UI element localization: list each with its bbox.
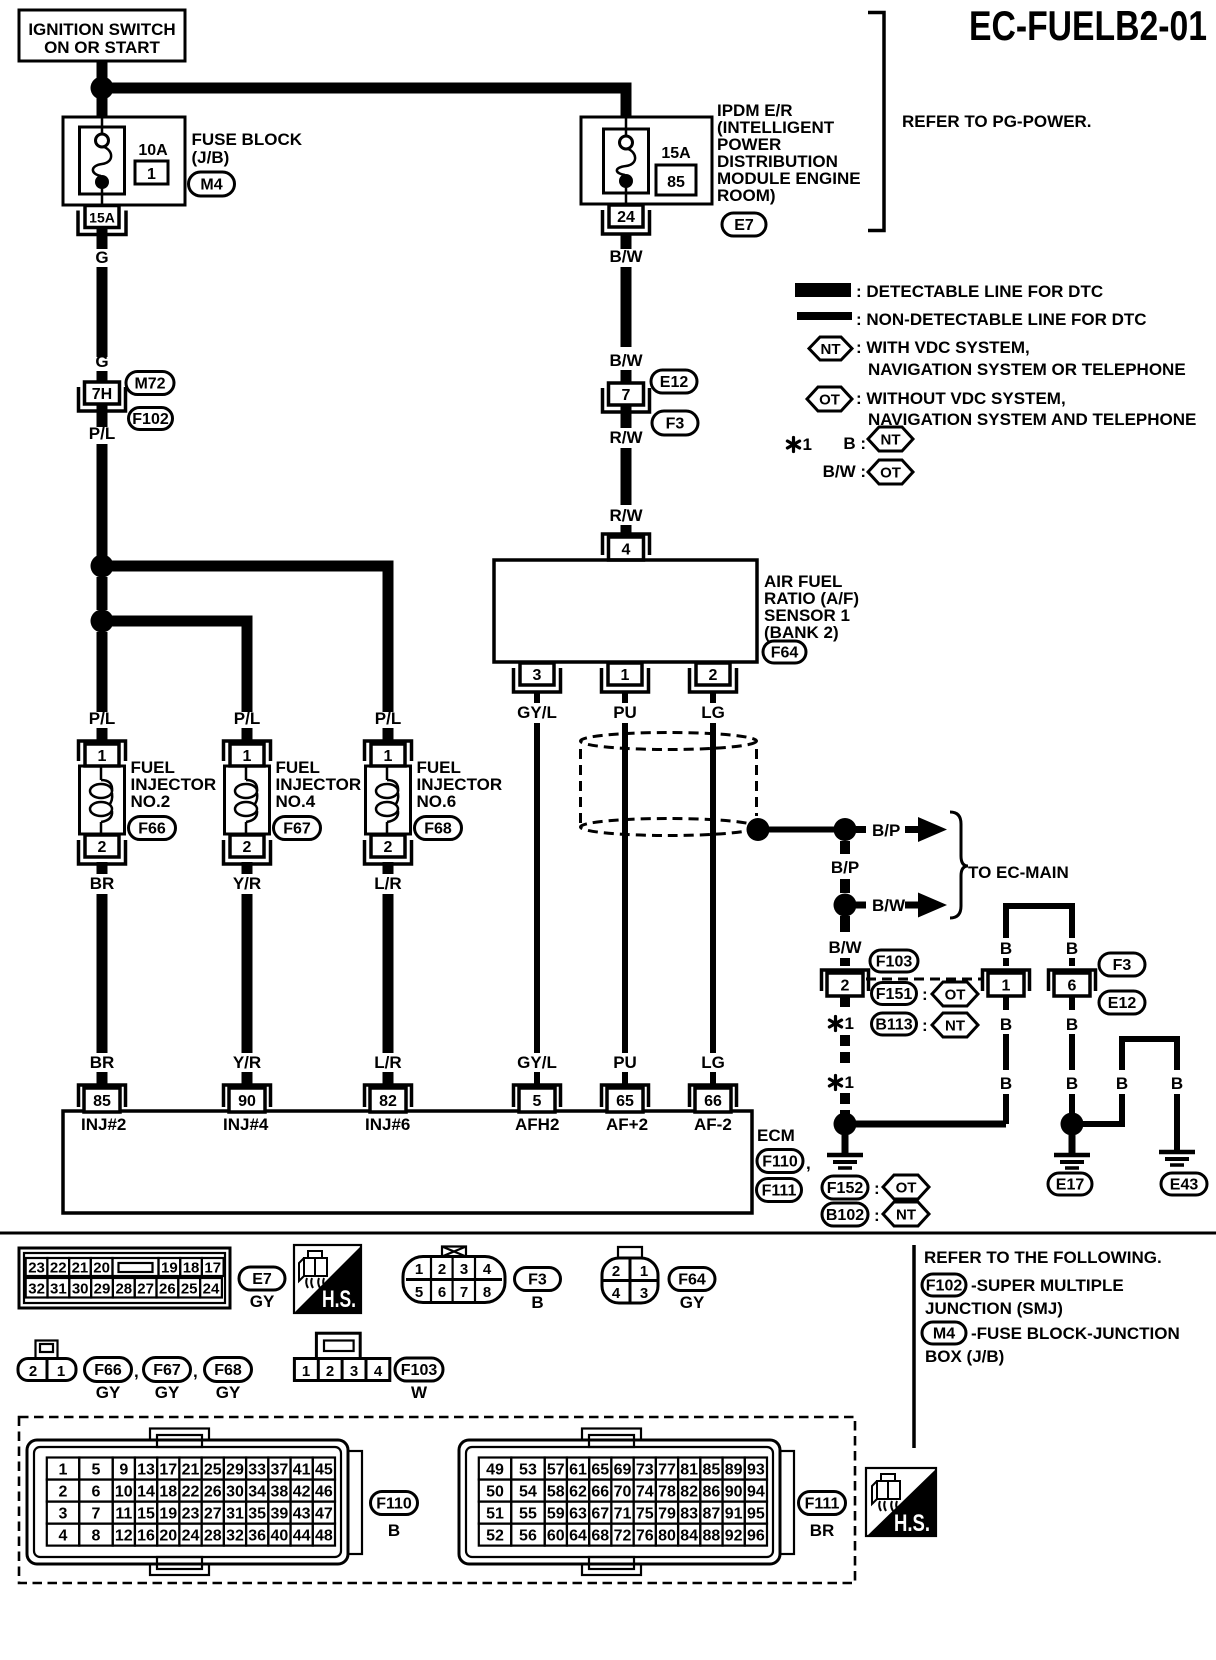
wire B/W below junction [840, 916, 850, 932]
svg-text:G: G [95, 248, 108, 267]
svg-text:2: 2 [438, 1261, 446, 1278]
wire B/P arrow stub [856, 826, 866, 833]
wire LG [710, 723, 716, 1053]
svg-text:3: 3 [350, 1363, 358, 1380]
svg-text:17: 17 [159, 1462, 177, 1479]
connector ref F110 [757, 1150, 803, 1173]
svg-text:43: 43 [293, 1506, 311, 1523]
svg-text::: : [874, 1179, 880, 1198]
svg-text:1: 1 [845, 1073, 854, 1092]
svg-text:15A: 15A [661, 145, 691, 162]
separator line [0, 1232, 1216, 1235]
svg-text:73: 73 [636, 1462, 654, 1479]
dashed link to terminal 1 [866, 978, 984, 981]
svg-text:BR: BR [90, 1053, 115, 1072]
svg-text:5: 5 [415, 1284, 423, 1301]
svg-text:11: 11 [115, 1506, 132, 1523]
connector ref F64 [763, 641, 806, 663]
svg-text:B: B [1171, 1074, 1183, 1093]
svg-text:INJ#2: INJ#2 [81, 1115, 126, 1134]
connector ref E43 [1161, 1173, 1207, 1195]
junction node B/W [834, 894, 857, 917]
svg-text:3: 3 [460, 1261, 468, 1278]
svg-text:65: 65 [616, 1093, 634, 1110]
svg-text:(BANK 2): (BANK 2) [764, 623, 839, 642]
svg-text:39: 39 [271, 1506, 289, 1523]
svg-text:86: 86 [703, 1484, 721, 1501]
svg-text:19: 19 [159, 1506, 177, 1523]
svg-text:REFER TO THE FOLLOWING.: REFER TO THE FOLLOWING. [924, 1248, 1162, 1267]
svg-text:GY/L: GY/L [517, 703, 557, 722]
wire horizontal to ECM ground node [845, 1121, 1006, 1128]
svg-text:25: 25 [204, 1462, 222, 1479]
svg-text::: : [874, 1206, 880, 1225]
injector NO.4 coil body [225, 766, 270, 834]
connector ref F102 note [922, 1274, 966, 1296]
svg-text:21: 21 [72, 1260, 89, 1277]
svg-text:,: , [806, 1154, 811, 1173]
svg-text:H.S.: H.S. [894, 1510, 930, 1537]
svg-text:ON OR START: ON OR START [44, 38, 160, 57]
svg-text:28: 28 [204, 1528, 222, 1545]
svg-text:1: 1 [147, 166, 156, 183]
svg-text:81: 81 [680, 1462, 698, 1479]
connector ref F110 label [371, 1492, 418, 1515]
svg-text:GY/L: GY/L [517, 1053, 557, 1072]
shield (shielded cable) around PU and LG [581, 733, 757, 750]
svg-text:E43: E43 [1170, 1177, 1199, 1194]
svg-text:5: 5 [91, 1462, 100, 1479]
svg-text:4: 4 [59, 1528, 68, 1545]
svg-text:1: 1 [640, 1263, 648, 1280]
svg-text:P/L: P/L [234, 709, 260, 728]
svg-text:6: 6 [1068, 978, 1077, 995]
ECM terminal 85 INJ#2 [79, 1085, 126, 1107]
ECM terminal 90 INJ#4 [224, 1085, 271, 1107]
svg-text:2: 2 [243, 839, 252, 856]
connector F103/F151/B113 terminal 1 [983, 970, 1030, 991]
svg-text:26: 26 [204, 1484, 222, 1501]
svg-text:9: 9 [119, 1462, 128, 1479]
svg-text:-SUPER MULTIPLE: -SUPER MULTIPLE [971, 1276, 1124, 1295]
ECM terminal 65 AF+2 [602, 1085, 649, 1107]
svg-text:18: 18 [159, 1484, 177, 1501]
svg-text:91: 91 [725, 1506, 743, 1523]
svg-text:1: 1 [621, 667, 630, 684]
svg-text:4: 4 [374, 1363, 383, 1380]
terminal 24 of IPDM [603, 210, 650, 234]
svg-text:P/L: P/L [375, 709, 401, 728]
svg-text:79: 79 [658, 1506, 676, 1523]
svg-text:ROOM): ROOM) [717, 186, 776, 205]
svg-text:F152: F152 [827, 1180, 864, 1197]
svg-text:92: 92 [725, 1528, 743, 1545]
svg-text:EC-FUELB2-01: EC-FUELB2-01 [969, 2, 1207, 49]
fuse block (J/B) box [63, 117, 185, 205]
connector face F103 (4-pin) [294, 1359, 389, 1381]
svg-text:B/P: B/P [831, 858, 859, 877]
svg-text:B: B [1000, 1015, 1012, 1034]
svg-text:59: 59 [547, 1506, 565, 1523]
svg-text:13: 13 [137, 1462, 155, 1479]
svg-text:B :: B : [843, 434, 866, 453]
svg-text:NO.2: NO.2 [131, 792, 171, 811]
wire B loop to ground E43 [1083, 1094, 1122, 1124]
svg-text:PU: PU [613, 1053, 637, 1072]
svg-text:E12: E12 [660, 374, 689, 391]
connector face E7 (IPDM 24-pin) [19, 1248, 230, 1308]
svg-text:2: 2 [98, 839, 107, 856]
injector NO.6 coil body [366, 766, 411, 834]
svg-text:23: 23 [182, 1506, 200, 1523]
svg-text:GY: GY [680, 1293, 705, 1312]
wire PU [622, 723, 628, 1053]
svg-text:B: B [1000, 939, 1012, 958]
ECM terminal 82 INJ#6 [365, 1085, 412, 1107]
svg-text:NT: NT [821, 341, 841, 358]
svg-text:: WITHOUT VDC SYSTEM,: : WITHOUT VDC SYSTEM, [856, 389, 1066, 408]
svg-text:84: 84 [680, 1528, 698, 1545]
wire B from terminal 1 to ground node [1003, 996, 1009, 1010]
svg-text:18: 18 [183, 1260, 200, 1277]
svg-text:BOX (J/B): BOX (J/B) [925, 1347, 1004, 1366]
svg-text:20: 20 [159, 1528, 177, 1545]
svg-text:F64: F64 [771, 645, 799, 662]
wire B loop over connectors 1 and 6 [1006, 906, 1072, 938]
svg-text:85: 85 [703, 1462, 721, 1479]
svg-text:93: 93 [747, 1462, 765, 1479]
svg-text:2: 2 [709, 667, 718, 684]
connector ref F3 bottom [515, 1268, 561, 1291]
wire P/L to injector NO.4 [102, 621, 247, 712]
fuse 10A no.1 [101, 117, 104, 134]
svg-text:OT: OT [880, 465, 901, 482]
wire P/L to injector NO.6 [102, 566, 388, 712]
svg-text:14: 14 [137, 1484, 155, 1501]
svg-text:34: 34 [248, 1484, 266, 1501]
connector M72/F102 terminal 7H [79, 387, 126, 411]
svg-text:17: 17 [204, 1260, 221, 1277]
svg-text:24: 24 [203, 1281, 220, 1298]
svg-text:67: 67 [591, 1506, 609, 1523]
wire shield drain to B/P node [769, 827, 845, 833]
svg-text:F68: F68 [214, 1362, 242, 1379]
arrow to EC-MAIN (B/P) [905, 826, 918, 833]
svg-text:7: 7 [91, 1506, 100, 1523]
svg-text:B: B [1116, 1074, 1128, 1093]
svg-text:90: 90 [725, 1484, 743, 1501]
svg-text:47: 47 [315, 1506, 333, 1523]
svg-text:30: 30 [72, 1281, 89, 1298]
svg-text:F3: F3 [666, 416, 685, 433]
wire R/W [621, 405, 632, 428]
svg-text:36: 36 [248, 1528, 266, 1545]
svg-text:NT: NT [896, 1207, 916, 1224]
svg-text:22: 22 [182, 1484, 200, 1501]
junction node E17 ground [1061, 1113, 1084, 1136]
svg-text:32: 32 [28, 1281, 45, 1298]
svg-text:66: 66 [704, 1093, 722, 1110]
svg-text:88: 88 [703, 1528, 721, 1545]
svg-text:1: 1 [1002, 978, 1011, 995]
junction node (battery feed split) [91, 77, 114, 100]
ground E17 [1054, 1153, 1090, 1158]
svg-text:B: B [388, 1521, 400, 1540]
svg-text:40: 40 [271, 1528, 289, 1545]
svg-text:38: 38 [271, 1484, 289, 1501]
svg-text:26: 26 [159, 1281, 176, 1298]
wire junction to fuse block [97, 96, 108, 118]
svg-text:30: 30 [226, 1484, 244, 1501]
wire GY/L [534, 723, 540, 1053]
connector ref E7 [722, 213, 766, 236]
svg-text:4: 4 [483, 1261, 492, 1278]
svg-text:B/W :: B/W : [823, 462, 866, 481]
wire LG label [710, 692, 716, 703]
svg-text:87: 87 [703, 1506, 721, 1523]
junction node P/L split 1 [91, 555, 114, 578]
wire to ground F152/B102 [842, 1135, 849, 1155]
svg-text:54: 54 [519, 1484, 537, 1501]
svg-text:BR: BR [90, 874, 115, 893]
injector NO.2 coil body [80, 766, 125, 834]
svg-text:2: 2 [841, 978, 850, 995]
connector ref F103 bottom [395, 1358, 443, 1381]
connector ref F64 bottom [669, 1268, 715, 1291]
svg-text:AF-2: AF-2 [694, 1115, 732, 1134]
svg-text:32: 32 [226, 1528, 244, 1545]
svg-text:M4: M4 [933, 1326, 955, 1343]
svg-text:60: 60 [547, 1528, 565, 1545]
bracket REFER TO PG-POWER [868, 13, 884, 231]
svg-text:82: 82 [680, 1484, 698, 1501]
connector ref F3 right [1099, 953, 1145, 976]
connector ref M4 [189, 172, 235, 196]
svg-text:JUNCTION (SMJ): JUNCTION (SMJ) [925, 1299, 1063, 1318]
svg-text:B113: B113 [875, 1017, 912, 1034]
connector ref F111 [757, 1179, 802, 1202]
connector ref E12 right [1099, 991, 1145, 1014]
svg-text:31: 31 [50, 1281, 67, 1298]
connector ref F103 [870, 950, 918, 972]
svg-text:53: 53 [519, 1462, 537, 1479]
dashed box ECM connector views [19, 1417, 855, 1583]
injector NO.4 pin 1 [224, 741, 271, 761]
svg-text:37: 37 [271, 1462, 289, 1479]
svg-text:F151: F151 [876, 986, 913, 1003]
svg-text:66: 66 [591, 1484, 609, 1501]
svg-text:42: 42 [293, 1484, 311, 1501]
junction node P/L split 2 [91, 610, 114, 633]
svg-text:52: 52 [486, 1528, 504, 1545]
svg-text:TO EC-MAIN: TO EC-MAIN [968, 863, 1069, 882]
svg-text:5: 5 [533, 1093, 542, 1110]
svg-text:,: , [193, 1362, 198, 1381]
ground F152/B102 [827, 1153, 863, 1158]
injector NO.6 pin 1 [365, 741, 412, 761]
svg-text:7H: 7H [92, 386, 112, 403]
svg-text:F67: F67 [153, 1362, 181, 1379]
connector ref F152 : OT [822, 1176, 868, 1199]
svg-text:16: 16 [137, 1528, 155, 1545]
svg-text:6: 6 [438, 1284, 446, 1301]
svg-text:NO.6: NO.6 [417, 792, 457, 811]
svg-text:: NON-DETECTABLE LINE FOR DTC: : NON-DETECTABLE LINE FOR DTC [856, 310, 1147, 329]
svg-text:68: 68 [591, 1528, 609, 1545]
svg-text:OT: OT [819, 392, 840, 409]
svg-text:F111: F111 [762, 1183, 797, 1200]
wire G from fuse block [97, 227, 108, 250]
svg-text:90: 90 [238, 1093, 256, 1110]
svg-text:NAVIGATION SYSTEM OR TELEPHONE: NAVIGATION SYSTEM OR TELEPHONE [868, 360, 1186, 379]
svg-text:NT: NT [881, 432, 901, 449]
air fuel ratio sensor box F64 [494, 560, 757, 662]
svg-text:20: 20 [93, 1260, 110, 1277]
svg-text:7: 7 [460, 1284, 468, 1301]
sensor terminal 3 [514, 668, 561, 692]
svg-text:E7: E7 [252, 1271, 272, 1288]
svg-text:B/W: B/W [609, 247, 643, 266]
svg-text:65: 65 [591, 1462, 609, 1479]
wire P/L to injector NO.2 [97, 632, 108, 712]
connector ref B113 : NT [872, 1013, 917, 1035]
svg-text:85: 85 [93, 1093, 111, 1110]
svg-text:10: 10 [115, 1484, 133, 1501]
svg-text:ECM: ECM [757, 1126, 795, 1145]
connector ref B102 : NT [822, 1203, 868, 1226]
svg-text:80: 80 [658, 1528, 676, 1545]
svg-text:44: 44 [293, 1528, 311, 1545]
svg-text:2: 2 [59, 1484, 68, 1501]
svg-text:19: 19 [161, 1260, 178, 1277]
svg-text:21: 21 [182, 1462, 200, 1479]
sensor terminal 2 [690, 668, 737, 692]
svg-text:31: 31 [226, 1506, 244, 1523]
wire L/R injector NO.6 to ECM [383, 862, 394, 874]
svg-text:E17: E17 [1056, 1177, 1085, 1194]
svg-text:45: 45 [315, 1462, 333, 1479]
svg-text:27: 27 [204, 1506, 222, 1523]
svg-text:B/W: B/W [609, 351, 643, 370]
fuse 15A no.85 [625, 117, 628, 136]
svg-text:4: 4 [622, 542, 631, 559]
connector F103/F151/B113 terminal 2 [822, 970, 869, 991]
svg-text:28: 28 [115, 1281, 132, 1298]
svg-text:1: 1 [845, 1014, 854, 1033]
svg-text:R/W: R/W [609, 428, 643, 447]
svg-text:46: 46 [315, 1484, 333, 1501]
svg-text:F110: F110 [376, 1496, 412, 1513]
svg-text:3: 3 [533, 667, 542, 684]
connector refs F66 F67 F68 [85, 1358, 132, 1382]
svg-text:8: 8 [483, 1284, 491, 1301]
wire junction to IPDM (horizontal) [102, 88, 626, 117]
connector face F64 (4-pin) [602, 1258, 658, 1303]
svg-text:F64: F64 [678, 1272, 706, 1289]
svg-text:29: 29 [226, 1462, 244, 1479]
svg-text:Y/R: Y/R [233, 874, 261, 893]
svg-text:24: 24 [182, 1528, 200, 1545]
svg-text:INJ#6: INJ#6 [365, 1115, 410, 1134]
svg-text:E12: E12 [1108, 995, 1137, 1012]
svg-text:F3: F3 [528, 1272, 547, 1289]
svg-text:L/R: L/R [374, 1053, 401, 1072]
terminal 15A of fuse block [78, 211, 126, 235]
svg-text:,: , [134, 1362, 139, 1381]
sensor terminal 1 [602, 668, 649, 692]
svg-text:62: 62 [569, 1484, 587, 1501]
svg-text:33: 33 [248, 1462, 266, 1479]
svg-text:2: 2 [326, 1363, 334, 1380]
svg-text:B: B [1066, 1074, 1078, 1093]
svg-text:89: 89 [725, 1462, 743, 1479]
svg-text:15A: 15A [89, 210, 115, 226]
svg-text:63: 63 [569, 1506, 587, 1523]
wire Y/R injector NO.4 to ECM [242, 862, 253, 874]
svg-text:B102: B102 [826, 1207, 864, 1224]
svg-text:: WITH VDC SYSTEM,: : WITH VDC SYSTEM, [856, 338, 1030, 357]
legend NT symbol [809, 337, 852, 360]
svg-text:51: 51 [486, 1506, 504, 1523]
svg-text:12: 12 [115, 1528, 133, 1545]
svg-text:27: 27 [137, 1281, 154, 1298]
svg-text:35: 35 [248, 1506, 266, 1523]
svg-text:FUSE BLOCK: FUSE BLOCK [192, 130, 303, 149]
connector E12/F3 terminal 7 [603, 388, 650, 412]
svg-text:15: 15 [137, 1506, 155, 1523]
A/F sensor terminal 4 [603, 534, 650, 555]
wire to ground E17 [1069, 1135, 1076, 1155]
connector ref E7 bottom [239, 1267, 285, 1290]
svg-text:77: 77 [658, 1462, 676, 1479]
svg-text:85: 85 [667, 174, 685, 191]
svg-text:24: 24 [617, 209, 635, 226]
connector ref F66 [129, 817, 176, 840]
svg-text:F102: F102 [132, 411, 169, 428]
svg-text:NO.4: NO.4 [276, 792, 316, 811]
injector NO.4 pin 2 [224, 840, 271, 864]
injector NO.2 pin 2 [79, 840, 126, 864]
svg-text:3: 3 [640, 1285, 648, 1302]
svg-text:OT: OT [896, 1180, 917, 1197]
svg-text:23: 23 [28, 1260, 45, 1277]
svg-text:F111: F111 [805, 1496, 840, 1513]
svg-text:48: 48 [315, 1528, 333, 1545]
connector face F66/F67/F68 (2-pin) [18, 1359, 76, 1381]
svg-text:58: 58 [547, 1484, 565, 1501]
svg-text:7: 7 [622, 387, 631, 404]
connector ref F67 [274, 817, 321, 840]
svg-text:F103: F103 [876, 954, 913, 971]
wire B/W arrow stub [856, 902, 866, 909]
svg-text:74: 74 [636, 1484, 654, 1501]
svg-text:75: 75 [636, 1506, 654, 1523]
wire BR injector NO.2 to ECM [97, 862, 108, 874]
wire B/P vertical [840, 841, 850, 854]
svg-text:2: 2 [384, 839, 393, 856]
svg-text:B/P: B/P [872, 821, 900, 840]
svg-text:B: B [1066, 939, 1078, 958]
connector face F3 (8-pin) [403, 1257, 505, 1303]
svg-text:25: 25 [181, 1281, 198, 1298]
svg-text:95: 95 [747, 1506, 765, 1523]
svg-text:G: G [95, 352, 108, 371]
legend detectable line [795, 283, 851, 297]
svg-text:M72: M72 [134, 376, 165, 393]
svg-text:GY: GY [96, 1383, 121, 1402]
ECM terminal 66 AF-2 [690, 1085, 737, 1107]
svg-text:F66: F66 [138, 821, 166, 838]
